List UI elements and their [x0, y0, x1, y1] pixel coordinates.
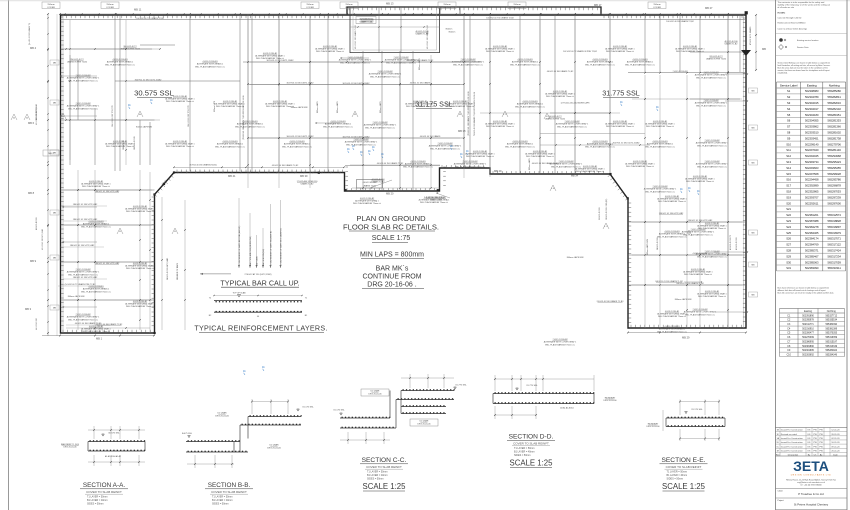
svg-text:ALTERNATE WITH (HEAR) 1: ALTERNATE WITH (HEAR) 1 — [587, 61, 614, 64]
svg-text:502381890: 502381890 — [802, 346, 814, 348]
svg-text:SIDES = 50mm: SIDES = 50mm — [212, 503, 229, 506]
svg-text:SCALE 1:25: SCALE 1:25 — [510, 459, 554, 468]
svg-text:Issued For Construction: Issued For Construction — [781, 437, 804, 440]
sheet left border — [8, 0, 10, 510]
svg-text:ALTERNATE WITH (HEAR) 1: ALTERNATE WITH (HEAR) 1 — [647, 143, 674, 146]
svg-text:565281366: 565281366 — [827, 125, 841, 129]
svg-text:S6: S6 — [787, 119, 791, 123]
svg-text:MB 4: MB 4 — [30, 46, 37, 50]
svg-text:150mm: 150mm — [653, 4, 660, 6]
svg-text:S13: S13 — [786, 160, 791, 164]
svg-text:WILL PLACE BARS AT 75mm c/c: WILL PLACE BARS AT 75mm c/c — [235, 125, 265, 128]
svg-text:COVER TO SLAB REINFT: COVER TO SLAB REINFT — [86, 490, 122, 494]
svg-text:800mm LAPS: 800mm LAPS — [528, 158, 531, 170]
svg-text:ALTERNATE WITH (HEA) GRAY 1: ALTERNATE WITH (HEA) GRAY 1 — [165, 142, 194, 145]
svg-text:ALTERNATE WITH (HEA) GRAY 1: ALTERNATE WITH (HEA) GRAY 1 — [265, 102, 294, 105]
svg-text:WILL PLACE BARS AT 75mm c/c: WILL PLACE BARS AT 75mm c/c — [505, 145, 535, 148]
svg-text:S31: S31 — [786, 266, 791, 270]
svg-text:300 H13 41 180 150T2,150B2: 300 H13 41 180 150T2,150B2 — [613, 143, 641, 145]
svg-text:WILL PLACE BARS AT 75mm c/c: WILL PLACE BARS AT 75mm c/c — [696, 104, 726, 107]
svg-text:TYPICAL REINFORCEMENT LAYERS.: TYPICAL REINFORCEMENT LAYERS. — [194, 324, 327, 333]
svg-text:ALTERNATE WITH COVER GRAY 1: ALTERNATE WITH COVER GRAY 1 — [67, 77, 100, 80]
svg-text:ALTERNATE WITH (HEAR) 1: ALTERNATE WITH (HEAR) 1 — [107, 61, 134, 64]
svg-text:MB: MB — [762, 47, 766, 51]
svg-text:45 H12 41 180 54T2,54B2: 45 H12 41 180 54T2,54B2 — [36, 104, 38, 125]
svg-text:WILL PLACE BARS AT 75mm c/c: WILL PLACE BARS AT 75mm c/c — [658, 200, 686, 203]
svg-text:31.175 SSL: 31.175 SSL — [302, 407, 314, 409]
dim line above left bottom edge — [174, 166, 344, 168]
svg-text:186 H12 41 180 54T2,54B2: 186 H12 41 180 54T2,54B2 — [73, 204, 98, 206]
project row — [776, 497, 848, 499]
svg-text:S22: S22 — [786, 213, 791, 217]
svg-text:SECTION E-E.: SECTION E-E. — [662, 457, 706, 464]
internal horizontals in band — [61, 48, 153, 50]
svg-text:800mm LAPS MIN: 800mm LAPS MIN — [136, 126, 152, 129]
svg-text:TOTAL NUMBER OF BARS BEYOND (A: TOTAL NUMBER OF BARS BEYOND (ABOVE) — [238, 225, 241, 266]
svg-text:150mm: 150mm — [443, 4, 450, 6]
boxed label 44 H13 40 150 — [357, 180, 383, 189]
svg-text:WILL PLACE BARS AT 75mm c/c: WILL PLACE BARS AT 75mm c/c — [657, 235, 687, 238]
svg-text:WILL PLACE BARS AT 75mm c/c: WILL PLACE BARS AT 75mm c/c — [585, 63, 615, 66]
svg-text:565317122: 565317122 — [827, 243, 841, 247]
left margin hatch symbols — [11, 114, 17, 120]
svg-text:800mm LAPS MIN: 800mm LAPS MIN — [646, 239, 649, 255]
plan inner left edge line — [62, 15, 64, 333]
svg-text:IN GEN:: IN GEN: — [778, 13, 786, 15]
svg-text:565295455: 565295455 — [827, 166, 841, 170]
svg-text:276 H12 AT 150 (54T2,15B2): 276 H12 AT 150 (54T2,15B2) — [245, 273, 272, 276]
svg-text:ALTERNATE WITH (HEAR) 1: ALTERNATE WITH (HEAR) 1 — [405, 163, 432, 166]
svg-text:Revised as noted: Revised as noted — [781, 433, 798, 436]
svg-text:WILL PLACE BARS AT 75mm c/c: WILL PLACE BARS AT 75mm c/c — [526, 155, 554, 158]
svg-text:T1 LAYER = 50mm: T1 LAYER = 50mm — [367, 471, 387, 474]
svg-text:40 H12 41 180 UBARS TL,B2: 40 H12 41 180 UBARS TL,B2 — [354, 25, 357, 49]
svg-text:ALTERNATE WITH COVER GRAY 1: ALTERNATE WITH COVER GRAY 1 — [67, 105, 100, 108]
svg-text:502393734: 502393734 — [805, 160, 819, 164]
svg-text:565284346: 565284346 — [826, 354, 838, 356]
svg-text:ALTERNATE WITH COVER GRAY 1: ALTERNATE WITH COVER GRAY 1 — [644, 188, 677, 191]
svg-text:44 H13 40 150 UBARS: 44 H13 40 150 UBARS — [420, 135, 441, 138]
svg-text:S14: S14 — [786, 166, 791, 170]
svg-text:S29: S29 — [786, 254, 791, 258]
section A-A drawing — [88, 441, 145, 443]
svg-text:ALTERNATE WITH (HEA) GRAY 1: ALTERNATE WITH (HEA) GRAY 1 — [81, 182, 110, 185]
svg-text:45 H12 40 180: 45 H12 40 180 — [36, 218, 38, 230]
svg-text:Issued For Construction: Issued For Construction — [781, 449, 804, 452]
typical bar call up drawing — [200, 273, 231, 275]
svg-text:565281738: 565281738 — [827, 136, 841, 140]
svg-text:565317424: 565317424 — [827, 249, 841, 253]
svg-text:502303510: 502303510 — [805, 131, 819, 135]
svg-text:Easting: Easting — [807, 83, 817, 87]
svg-text:300 H13 41 180 10BT2,150B2: 300 H13 41 180 10BT2,150B2 — [286, 136, 314, 138]
svg-text:S1: S1 — [787, 89, 791, 93]
svg-text:565316897: 565316897 — [827, 225, 841, 229]
svg-text:565282132: 565282132 — [827, 107, 841, 111]
svg-text:502386995: 502386995 — [802, 341, 814, 343]
svg-text:SCALE 1:25: SCALE 1:25 — [662, 482, 706, 491]
svg-text:36 H12 40 180 UBARS(T2,B2): 36 H12 40 180 UBARS(T2,B2) — [189, 164, 217, 167]
svg-text:565282016: 565282016 — [827, 101, 841, 105]
150mm COVER boxed labels along top — [42, 2, 60, 9]
svg-text:L C: L C — [604, 226, 608, 228]
svg-text:34 H12 41 180 54T2,54B2: 34 H12 41 180 54T2,54B2 — [167, 258, 169, 280]
svg-text:MB 29: MB 29 — [682, 336, 690, 340]
svg-text:565294968: 565294968 — [827, 154, 841, 158]
svg-text:ALTERNATE WITH (HEA) GRAY 1: ALTERNATE WITH (HEA) GRAY 1 — [315, 47, 344, 50]
svg-text:BAR TYPE AND SIZE(MENSIONS): BAR TYPE AND SIZE(MENSIONS) — [249, 236, 252, 266]
svg-text:(78 H12 41 180 UBARS T1,B1 FRO: (78 H12 41 180 UBARS T1,B1 FROM DRG 20-1… — [467, 91, 470, 136]
svg-text:TOP OF SLAB: TOP OF SLAB — [232, 291, 246, 294]
svg-text:502293663: 502293663 — [805, 166, 819, 170]
svg-text:WILL PLACE BARS AT 75mm c/c: WILL PLACE BARS AT 75mm c/c — [68, 318, 98, 321]
svg-text:Concrete Strength C40/ 50: Concrete Strength C40/ 50 — [778, 17, 803, 20]
svg-text:16-11-20: 16-11-20 — [831, 442, 840, 444]
svg-text:31.175 SSL: 31.175 SSL — [333, 410, 345, 412]
svg-text:DRG 20-16-06: DRG 20-16-06 — [63, 447, 77, 449]
svg-text:ALTERNATE WITH COVER GRAY 1: ALTERNATE WITH COVER GRAY 1 — [695, 74, 728, 77]
svg-text:WILL PLACE BARS AT 75mm c/c: WILL PLACE BARS AT 75mm c/c — [323, 125, 353, 128]
svg-text:ALTERNATE WITH (HEA) GRAY 1: ALTERNATE WITH (HEA) GRAY 1 — [657, 197, 686, 200]
svg-text:565370355: 565370355 — [826, 333, 838, 335]
top dimension tick cluster — [64, 13, 65, 14]
svg-text:09-11-20: 09-11-20 — [831, 446, 840, 448]
top-centre slab opening — [350, 8, 440, 53]
svg-text:ALTERNATE WITH (HEA) GRAY 1: ALTERNATE WITH (HEA) GRAY 1 — [215, 102, 244, 105]
corner dot top-right — [745, 11, 748, 14]
svg-text:100 H12 40 180 UBARS T2,B2: 100 H12 40 180 UBARS T2,B2 — [666, 20, 694, 23]
svg-text:PW: PW — [819, 442, 822, 444]
svg-text:502384465: 502384465 — [805, 231, 819, 235]
svg-text:502385467: 502385467 — [805, 254, 819, 258]
svg-text:565316979: 565316979 — [827, 231, 841, 235]
svg-text:44 H13 40 150 UBARS T2,B2: 44 H13 40 150 UBARS T2,B2 — [377, 162, 404, 165]
svg-text:MB 17: MB 17 — [594, 3, 602, 7]
svg-text:184 H12 B1 180 TP31,TP0: 184 H12 B1 180 TP31,TP0 — [112, 105, 114, 127]
svg-text:tel : +44 (0) 1932 336000: tel : +44 (0) 1932 336000 — [800, 484, 821, 487]
svg-text:502292611: 502292611 — [805, 201, 819, 205]
svg-text:WILL PLACE BARS AT 75mm c/c: WILL PLACE BARS AT 75mm c/c — [68, 79, 98, 82]
svg-text:COVER: COVER — [106, 7, 114, 9]
info panel borders — [775, 0, 777, 510]
svg-text:31.775 SSL: 31.775 SSL — [602, 89, 640, 98]
svg-text:CONTINUE FROM: CONTINUE FROM — [362, 274, 421, 281]
opening boxed label — [356, 17, 376, 24]
svg-text:PW: PW — [819, 430, 822, 432]
svg-text:502 H12 40 T2 UBARS IN PRE T2,: 502 H12 40 T2 UBARS IN PRE T2,B2 — [563, 50, 598, 53]
svg-text:565279706: 565279706 — [827, 142, 841, 146]
svg-text:SIDES = 50mm: SIDES = 50mm — [87, 503, 104, 506]
revision table header row — [776, 455, 848, 457]
svg-text:T1 LAYER = 50mm: T1 LAYER = 50mm — [212, 496, 232, 499]
svg-text:SECTION B-B.: SECTION B-B. — [208, 482, 251, 489]
svg-text:COVER: COVER — [443, 7, 451, 9]
svg-text:Service Data: Service Data — [797, 46, 809, 49]
svg-text:ALTERNATE WITH (HEA) GRAY 1: ALTERNATE WITH (HEA) GRAY 1 — [255, 54, 284, 57]
svg-text:502303692: 502303692 — [802, 354, 814, 356]
svg-text:S16: S16 — [786, 178, 791, 182]
svg-text:800mm: 800mm — [446, 29, 453, 31]
svg-text:800mm: 800mm — [449, 32, 456, 34]
svg-text:41 H13 41 180 T2: 41 H13 41 180 T2 — [730, 235, 732, 250]
svg-text:Northing: Northing — [827, 310, 837, 313]
svg-text:WILL PLACE BARS AT 75mm c/c: WILL PLACE BARS AT 75mm c/c — [697, 255, 727, 258]
svg-text:565313349: 565313349 — [826, 346, 838, 348]
svg-text:565312574: 565312574 — [827, 213, 841, 217]
svg-text:WILL PLACE BARS AT 75mm c/c: WILL PLACE BARS AT 75mm c/c — [626, 165, 654, 168]
svg-text:WILL PLACE BARS AT 75mm c/c: WILL PLACE BARS AT 75mm c/c — [126, 267, 154, 270]
svg-text:150mm: 150mm — [106, 4, 113, 6]
svg-text:S20: S20 — [786, 201, 791, 205]
svg-text:ALTERNATE WITH (HEA) GRAY 1: ALTERNATE WITH (HEA) GRAY 1 — [125, 302, 154, 305]
small tick clusters under band bottom edges — [177, 172, 178, 173]
svg-text:UBARS T2,B2: UBARS T2,B2 — [301, 183, 315, 186]
svg-text:WILL PLACE BARS AT 75mm c/c: WILL PLACE BARS AT 75mm c/c — [486, 125, 514, 128]
svg-text:31.175 SSL: 31.175 SSL — [691, 409, 703, 411]
svg-text:WILL PLACE BARS AT 75mm c/c: WILL PLACE BARS AT 75mm c/c — [282, 145, 312, 148]
svg-text:MB 13: MB 13 — [386, 2, 394, 6]
svg-text:40 H12 41 180 UBARS TL,B2: 40 H12 41 180 UBARS TL,B2 — [426, 25, 429, 49]
svg-text:565285280: 565285280 — [827, 89, 841, 93]
svg-text:WILL PLACE BARS AT 75mm c/c: WILL PLACE BARS AT 75mm c/c — [606, 50, 634, 53]
left margin dimension chain — [47, 14, 49, 336]
svg-text:41 H13 41 180: 41 H13 41 180 — [736, 238, 738, 250]
svg-text:186 H12 41 180 54T2,54B2: 186 H12 41 180 54T2,54B2 — [73, 277, 98, 279]
svg-text:502381201: 502381201 — [805, 213, 819, 217]
svg-text:565281602: 565281602 — [827, 131, 841, 135]
svg-text:502303451: 502303451 — [805, 136, 819, 140]
svg-text:PW: PW — [813, 450, 816, 452]
svg-text:40 H12 41 180 UBARS: 40 H12 41 180 UBARS — [410, 82, 431, 85]
svg-text:ALTERNATE WITH COVER GRAY 1: ALTERNATE WITH COVER GRAY 1 — [339, 59, 372, 62]
svg-text:ALTERNATE WITH (HEA) GRAY 1: ALTERNATE WITH (HEA) GRAY 1 — [525, 152, 554, 155]
svg-text:WILL PLACE BARS AT 75mm c/c: WILL PLACE BARS AT 75mm c/c — [697, 165, 727, 168]
svg-text:L E: L E — [551, 188, 555, 190]
svg-text:UBARS TL,B2: UBARS TL,B2 — [361, 21, 375, 24]
svg-text:DRG 20-16-06: DRG 20-16-06 — [368, 394, 382, 396]
svg-text:B1 LAYER = 40mm: B1 LAYER = 40mm — [367, 474, 388, 477]
svg-text:ALTERNATE WITH (HEA) GRAY 1: ALTERNATE WITH (HEA) GRAY 1 — [697, 224, 726, 227]
svg-text:WILL PLACE BARS AT 75mm c/c: WILL PLACE BARS AT 75mm c/c — [430, 147, 460, 150]
svg-text:S27: S27 — [786, 243, 791, 247]
svg-text:ALTERNATE WITH COVER GRAY 1: ALTERNATE WITH COVER GRAY 1 — [454, 163, 487, 166]
svg-text:WILL PLACE BARS AT 75mm c/c: WILL PLACE BARS AT 75mm c/c — [698, 295, 726, 298]
legend service data symbol — [779, 45, 784, 50]
svg-text:565316359: 565316359 — [826, 337, 838, 339]
svg-text:TOTAL NUMBER OF BARS IN LAYER: TOTAL NUMBER OF BARS IN LAYER B2 — [269, 231, 272, 266]
svg-text:100 H12 40 T30 UBARS T2,B2: 100 H12 40 T30 UBARS T2,B2 — [136, 17, 164, 20]
svg-text:WILL PLACE BARS AT 75mm c/c: WILL PLACE BARS AT 75mm c/c — [82, 330, 110, 333]
svg-text:COVER TO SLAB REINFT: COVER TO SLAB REINFT — [513, 442, 549, 446]
svg-text:565281146: 565281146 — [828, 148, 842, 152]
svg-text:COVER: COVER — [513, 7, 521, 9]
svg-text:502299140: 502299140 — [805, 142, 819, 146]
svg-text:ALTERNATE WITH (HEA) GRAY 1: ALTERNATE WITH (HEA) GRAY 1 — [575, 167, 604, 170]
svg-text:PW: PW — [813, 446, 816, 448]
svg-text:ALTERNATE WITH (HEA) GRAY 1: ALTERNATE WITH (HEA) GRAY 1 — [81, 327, 110, 330]
svg-text:ALTERNATE WITH (HEA) GRAY 1: ALTERNATE WITH (HEA) GRAY 1 — [625, 162, 654, 165]
svg-text:ALTERNATE WITH (HEA) GRAY 1: ALTERNATE WITH (HEA) GRAY 1 — [675, 47, 704, 50]
right-mid dim lines near 31.775 region — [540, 133, 645, 135]
svg-text:PW: PW — [819, 450, 822, 452]
svg-text:565297239: 565297239 — [827, 195, 841, 199]
svg-text:31.775 SSL: 31.775 SSL — [526, 385, 538, 387]
svg-text:Issued For Construction: Issued For Construction — [781, 441, 804, 444]
svg-text:502391890: 502391890 — [802, 315, 814, 317]
svg-text:Reinforcement Steel to BS8110: Reinforcement Steel to BS8110 — [778, 22, 807, 25]
svg-text:(54 H12 40 T2 UBARS PRE T2,B2: (54 H12 40 T2 UBARS PRE T2,B2 — [65, 283, 97, 286]
svg-text:ALTERNATE WITH (HEA) GRAY 1: ALTERNATE WITH (HEA) GRAY 1 — [685, 177, 714, 180]
svg-text:UBARS IN PRE T2,B2: UBARS IN PRE T2,B2 — [706, 58, 727, 61]
svg-text:565315187: 565315187 — [826, 341, 838, 343]
svg-text:WILL PLACE BARS AT 75mm c/c: WILL PLACE BARS AT 75mm c/c — [606, 125, 634, 128]
svg-text:Existing service location: Existing service location — [797, 39, 818, 42]
svg-text:(2x H12 41 180 UBARS T1): (2x H12 41 180 UBARS T1) — [28, 22, 31, 45]
svg-text:B1 LAYER = 40mm: B1 LAYER = 40mm — [667, 474, 688, 477]
svg-text:800mm LAPS: 800mm LAPS — [379, 101, 382, 113]
svg-text:186 H12 41 180 54T2,54B2: 186 H12 41 180 54T2,54B2 — [70, 245, 95, 247]
svg-text:S28: S28 — [786, 249, 791, 253]
svg-text:44 H12 40 180 UBARS T2,B2: 44 H12 40 180 UBARS T2,B2 — [75, 322, 102, 325]
svg-text:PW: PW — [813, 438, 816, 440]
svg-text:ALTERNATE WITH (HEA) GRAY 1: ALTERNATE WITH (HEA) GRAY 1 — [445, 102, 474, 105]
svg-text:COVER: COVER — [47, 7, 55, 9]
svg-text:B1 LAYER = 40mm: B1 LAYER = 40mm — [87, 499, 108, 502]
svg-text:ALTERNATE WITH COVER GRAY 1: ALTERNATE WITH COVER GRAY 1 — [682, 231, 715, 234]
svg-text:WILL PLACE BARS AT 75mm c/c: WILL PLACE BARS AT 75mm c/c — [403, 165, 433, 168]
svg-text:ALTERNATE WITH (HEA) GRAY 1: ALTERNATE WITH (HEA) GRAY 1 — [485, 122, 514, 125]
svg-text:502316910: 502316910 — [802, 328, 814, 330]
svg-text:S4: S4 — [787, 107, 791, 111]
raised top edge segment — [347, 7, 601, 15]
svg-text:18 H12 41 180 / 180 (B2): 18 H12 41 180 / 180 (B2) — [606, 198, 608, 220]
svg-text:MB 9: MB 9 — [30, 259, 37, 263]
svg-text:S15: S15 — [786, 172, 791, 176]
svg-text:SECTION D-D.: SECTION D-D. — [509, 434, 554, 441]
svg-text:WILL PLACE BARS AT 75mm c/c: WILL PLACE BARS AT 75mm c/c — [676, 50, 704, 53]
svg-text:502393707: 502393707 — [805, 195, 819, 199]
svg-text:ALTERNATE WITH (HEA) GRAY 1: ALTERNATE WITH (HEA) GRAY 1 — [405, 102, 434, 105]
svg-text:DRG 20-16-06: DRG 20-16-06 — [267, 448, 281, 450]
svg-text:S7: S7 — [787, 125, 791, 129]
svg-text:46 H12 40 180 UBARS TL,B2: 46 H12 40 180 UBARS TL,B2 — [547, 70, 574, 73]
svg-text:COVER: COVER — [345, 7, 353, 9]
svg-text:ALTERNATE WITH (HEA) GRAY 1: ALTERNATE WITH (HEA) GRAY 1 — [465, 152, 494, 155]
svg-text:PW: PW — [813, 442, 816, 444]
svg-text:S10: S10 — [786, 142, 791, 146]
svg-text:ALTERNATE WITH COVER GRAY 1: ALTERNATE WITH COVER GRAY 1 — [696, 142, 729, 145]
svg-text:Cover to all bars 50mm (bearin: Cover to all bars 50mm (bearing) — [778, 28, 808, 31]
svg-text:WILL PLACE BARS AT 75mm c/c: WILL PLACE BARS AT 75mm c/c — [126, 210, 154, 213]
svg-text:eng@beta.co.uk www.beta.co.: eng@beta.co.uk www.beta.co.uk — [797, 481, 825, 484]
svg-text:565317071: 565317071 — [827, 237, 841, 241]
svg-text:WILL PLACE BARS AT 75mm c/c: WILL PLACE BARS AT 75mm c/c — [686, 180, 714, 183]
right wing bottom dimension line — [628, 332, 746, 334]
svg-text:WILL PLACE BARS AT 75mm c/c: WILL PLACE BARS AT 75mm c/c — [645, 145, 675, 148]
svg-text:WILL PLACE BARS AT 75mm c/c: WILL PLACE BARS AT 75mm c/c — [68, 273, 98, 276]
svg-text:BAR MK´s: BAR MK´s — [376, 266, 409, 273]
svg-text:WILL PLACE BARS AT 75mm c/c: WILL PLACE BARS AT 75mm c/c — [657, 330, 687, 333]
svg-text:S18: S18 — [786, 190, 791, 194]
svg-text:UBARS TL,B2: UBARS TL,B2 — [416, 33, 430, 36]
plan inner top edge line — [61, 19, 747, 21]
svg-text:ALTERNATE WITH COVER GRAY 1: ALTERNATE WITH COVER GRAY 1 — [556, 123, 589, 126]
svg-text:ALTERNATE WITH (HEA) GRAY 1: ALTERNATE WITH (HEA) GRAY 1 — [645, 122, 674, 125]
svg-text:502392899: 502392899 — [805, 184, 819, 188]
svg-text:WILL PLACE BARS AT 75mm c/c: WILL PLACE BARS AT 75mm c/c — [453, 63, 483, 66]
svg-text:45 H12 40 180 UBARS TL,B2: 45 H12 40 180 UBARS TL,B2 — [272, 164, 299, 167]
svg-text:B1 LAYER = 40mm: B1 LAYER = 40mm — [514, 451, 535, 454]
svg-text:PW: PW — [819, 434, 822, 436]
svg-text:WILL PLACE BARS AT 75mm c/c: WILL PLACE BARS AT 75mm c/c — [466, 155, 494, 158]
svg-text:ALTERNATE WITH COVER GRAY 1: ALTERNATE WITH COVER GRAY 1 — [364, 124, 397, 127]
svg-text:MB 39: MB 39 — [300, 174, 308, 178]
svg-text:WILL PLACE BARS AT 75mm c/c: WILL PLACE BARS AT 75mm c/c — [646, 125, 674, 128]
svg-text:ALTERNATE WITH COVER (HEA) 1: ALTERNATE WITH COVER (HEA) 1 — [419, 198, 450, 201]
svg-text:ALTERNATE WITH (HEA) GRAY 1: ALTERNATE WITH (HEA) GRAY 1 — [545, 92, 574, 95]
svg-text:565381389: 565381389 — [826, 328, 838, 330]
svg-text:565327712: 565327712 — [826, 315, 838, 317]
svg-text:WILL PLACE BARS AT 75mm c/c: WILL PLACE BARS AT 75mm c/c — [486, 50, 514, 53]
svg-text:ALTERNATE WITH (HEAR) 1: ALTERNATE WITH (HEAR) 1 — [83, 288, 110, 291]
svg-text:DESIGN CONSULTANTS LTD: DESIGN CONSULTANTS LTD — [791, 473, 832, 476]
svg-text:800mm LAPS: 800mm LAPS — [316, 101, 319, 113]
svg-text:Issued For Construction: Issued For Construction — [781, 445, 804, 448]
svg-text:502395978: 502395978 — [802, 320, 814, 322]
svg-text:DRG 20-16-06: DRG 20-16-06 — [215, 416, 229, 418]
svg-text:30.575 SSL: 30.575 SSL — [108, 433, 120, 435]
svg-text:20-11-20: 20-11-20 — [831, 450, 840, 452]
svg-text:DRG 20-16-06: DRG 20-16-06 — [417, 424, 431, 426]
svg-text:COVER TO SLAB REINFT: COVER TO SLAB REINFT — [366, 465, 402, 469]
svg-text:565333311: 565333311 — [828, 266, 842, 270]
svg-text:FLOOR SLAB RC DETAILS.: FLOOR SLAB RC DETAILS. — [343, 223, 439, 232]
svg-text:COVER TO SLAB REINFT: COVER TO SLAB REINFT — [666, 465, 702, 469]
svg-text:WILL PLACE BARS AT 75mm c/c: WILL PLACE BARS AT 75mm c/c — [82, 185, 110, 188]
svg-text:Northing: Northing — [829, 83, 840, 87]
svg-text:565295423: 565295423 — [827, 160, 841, 164]
svg-text:Service Label: Service Label — [780, 83, 798, 87]
svg-text:WILL PLACE BARS AT 75mm c/c: WILL PLACE BARS AT 75mm c/c — [697, 144, 727, 147]
svg-text:35 H12 41 180: 35 H12 41 180 — [599, 208, 601, 220]
svg-text:02-11-20: 02-11-20 — [831, 438, 840, 440]
opening dimension line — [350, 26, 440, 28]
svg-text:A1 A1 A1 A1 A1: A1 A1 A1 A1 A1 — [560, 407, 573, 410]
svg-text:800mm LAPS MIN: 800mm LAPS MIN — [567, 256, 584, 259]
svg-text:150mm: 150mm — [345, 4, 352, 6]
svg-text:WILL PLACE BARS AT 75mm c/c: WILL PLACE BARS AT 75mm c/c — [216, 105, 244, 108]
svg-text:UBARS TL,B2: UBARS TL,B2 — [725, 43, 739, 46]
svg-text:150mm: 150mm — [306, 4, 313, 6]
horizontal dimension segments with ticks — [66, 48, 160, 50]
svg-text:MIN LAPS = 800mm: MIN LAPS = 800mm — [360, 252, 424, 259]
svg-text:ALTERNATE WITH (HEAR) 1: ALTERNATE WITH (HEAR) 1 — [659, 233, 686, 236]
section E-E drawing — [666, 417, 725, 419]
left margin tick cluster — [47, 17, 48, 18]
svg-text:SIDES = 50mm: SIDES = 50mm — [514, 454, 531, 457]
client row — [776, 487, 848, 489]
svg-text:800mm LAPS MIN: 800mm LAPS MIN — [68, 295, 85, 298]
svg-text:47 H13 30 TL UBARS: 47 H13 30 TL UBARS — [749, 26, 752, 45]
svg-text:WILL PLACE BARS AT 75mm c/c: WILL PLACE BARS AT 75mm c/c — [420, 201, 448, 204]
svg-text:565281951: 565281951 — [827, 113, 841, 117]
svg-text:ALTERNATE WITH (HEA) GRAY 1: ALTERNATE WITH (HEA) GRAY 1 — [683, 270, 712, 273]
svg-text:800mm LAPS MIN: 800mm LAPS MIN — [675, 298, 692, 301]
svg-text:565317059: 565317059 — [827, 260, 841, 264]
svg-text:ALTERNATE WITH (HEAR) 1: ALTERNATE WITH (HEAR) 1 — [217, 143, 244, 146]
svg-text:St Peters Hospital Chertsey: St Peters Hospital Chertsey — [794, 502, 829, 506]
svg-text:502304055: 502304055 — [805, 119, 819, 123]
